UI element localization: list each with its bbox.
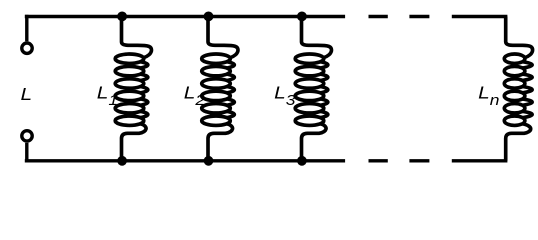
bottom right rail wire — [452, 159, 508, 162]
left bottom terminal circle — [22, 131, 32, 141]
inductor L3 bottom lead wire — [302, 124, 327, 161]
junction dot top L2 — [204, 12, 214, 22]
inductor L1 turn link 2 — [141, 74, 148, 80]
svg-text:L3: L3 — [274, 83, 295, 109]
inductor Ln turn 3 — [504, 79, 525, 88]
svg-text:L: L — [21, 84, 33, 104]
inductor L3 turn link 5 — [321, 111, 328, 117]
left top terminal stub wire — [25, 15, 28, 42]
inductor L2 turn link 4 — [227, 99, 234, 105]
inductor L1 turn 2 — [115, 66, 144, 75]
inductor L3 turn 5 — [295, 104, 324, 113]
inductor L2 turn 5 — [202, 104, 231, 113]
inductor L1 turn 6 — [115, 116, 144, 125]
inductor Ln turn 6 — [504, 116, 525, 125]
inductor L3 top lead wire — [302, 17, 332, 58]
inductor L1 turn link 4 — [141, 99, 148, 105]
inductor Ln turn link 4 — [523, 99, 533, 105]
inductor L3 turn link 1 — [321, 62, 328, 68]
inductor L3 turn 2 — [295, 66, 324, 75]
junction dot bottom L2 — [204, 156, 214, 166]
junction dot bottom L1 — [117, 156, 127, 166]
inductor L2 turn link 1 — [227, 62, 234, 68]
top right rail wire — [452, 15, 508, 18]
svg-text:Ln: Ln — [478, 83, 499, 109]
inductor L2 turn 3 — [202, 79, 231, 88]
top rail wire — [25, 15, 345, 18]
inductor L1 turn 1 — [115, 54, 144, 63]
inductor L1 turn link 1 — [141, 62, 148, 68]
inductor Ln turn 5 — [504, 104, 525, 113]
junction dot top L1 — [117, 12, 127, 22]
inductor L3 turn 4 — [295, 91, 324, 100]
inductor L2 turn 6 — [202, 116, 231, 125]
inductor L1 turn 3 — [115, 79, 144, 88]
bottom dashed wire segment 2 — [409, 159, 429, 162]
inductor L3 turn 3 — [295, 79, 324, 88]
bottom rail wire — [25, 159, 345, 162]
inductor L1 turn link 5 — [141, 111, 148, 117]
inductor L2 bottom lead wire — [208, 124, 233, 161]
inductor Ln turn 4 — [504, 91, 525, 100]
top dashed wire segment 1 — [369, 15, 388, 18]
inductor Ln turn link 2 — [523, 74, 533, 80]
inductor L2 turn link 3 — [227, 87, 234, 93]
inductor Ln top lead wire — [506, 17, 533, 58]
bottom dashed wire segment 1 — [369, 159, 388, 162]
inductor L3 turn link 2 — [321, 74, 328, 80]
inductor L3 turn 6 — [295, 116, 324, 125]
inductor L2 top lead wire — [208, 17, 238, 58]
inductor L1 bottom lead wire — [122, 124, 147, 161]
inductor L3 turn link 3 — [321, 87, 328, 93]
inductor Ln turn 1 — [504, 54, 525, 63]
inductor L1 turn 4 — [115, 91, 144, 100]
junction dot bottom L3 — [297, 156, 307, 166]
inductor Ln turn link 3 — [523, 87, 533, 93]
left bottom terminal stub wire — [25, 143, 28, 163]
inductor L1 turn link 3 — [141, 87, 148, 93]
inductor L2 turn link 5 — [227, 111, 234, 117]
inductor L2 turn 4 — [202, 91, 231, 100]
junction dot top L3 — [297, 12, 307, 22]
inductor Ln turn link 5 — [523, 111, 533, 117]
inductor L3 turn link 4 — [321, 99, 328, 105]
inductor Ln turn 2 — [504, 66, 525, 75]
left top terminal circle — [22, 43, 32, 53]
inductor L3 turn 1 — [295, 54, 324, 63]
top dashed wire segment 2 — [409, 15, 429, 18]
inductor L2 turn link 2 — [227, 74, 234, 80]
inductor L1 top lead wire — [122, 17, 152, 58]
inductor L2 turn 1 — [202, 54, 231, 63]
inductor Ln turn link 1 — [523, 62, 533, 68]
inductor L1 turn 5 — [115, 104, 144, 113]
inductor Ln bottom lead wire — [506, 124, 531, 161]
inductor L2 turn 2 — [202, 66, 231, 75]
svg-text:L1: L1 — [97, 83, 118, 109]
